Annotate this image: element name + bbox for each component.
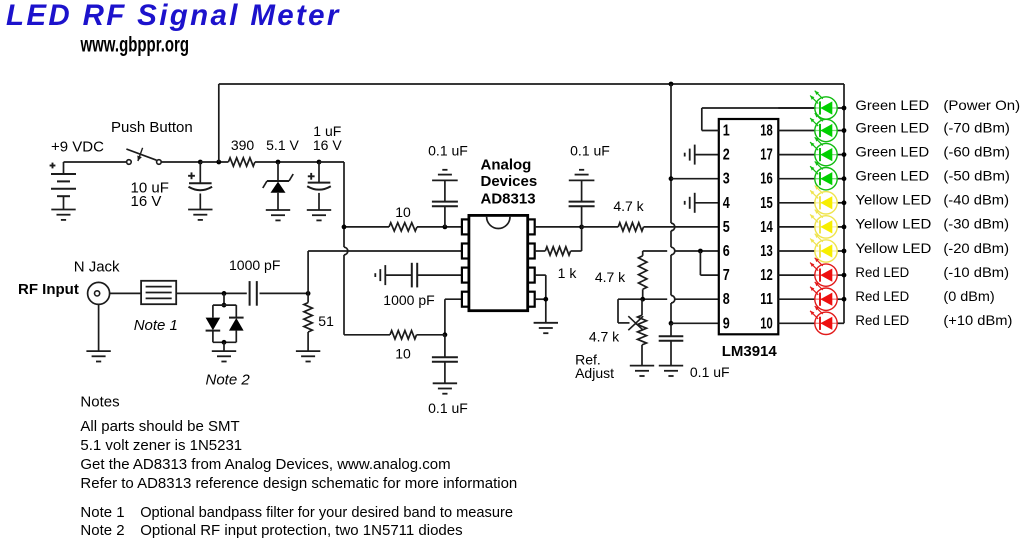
svg-text:(+10 dBm): (+10 dBm) [943, 312, 1012, 328]
svg-text:Optional bandpass filter for y: Optional bandpass filter for your desire… [140, 504, 513, 521]
svg-text:0.1 uF: 0.1 uF [690, 364, 730, 380]
svg-text:LM3914: LM3914 [722, 343, 778, 360]
svg-text:Note 1: Note 1 [134, 317, 178, 334]
svg-text:(-10 dBm): (-10 dBm) [943, 264, 1009, 280]
svg-text:18: 18 [760, 123, 773, 140]
svg-text:390: 390 [231, 137, 255, 153]
svg-text:Note 2: Note 2 [80, 522, 124, 538]
svg-text:Note 2: Note 2 [206, 371, 251, 388]
svg-text:(-60 dBm): (-60 dBm) [943, 143, 1010, 159]
svg-text:Green LED: Green LED [855, 168, 929, 184]
svg-text:Analog: Analog [481, 157, 532, 174]
svg-text:Yellow LED: Yellow LED [855, 216, 931, 232]
svg-text:0.1 uF: 0.1 uF [428, 143, 468, 159]
svg-text:4: 4 [723, 195, 730, 212]
svg-text:17: 17 [760, 147, 773, 164]
svg-text:14: 14 [760, 219, 773, 236]
svg-text:AD8313: AD8313 [481, 191, 536, 208]
svg-text:Optional RF input protection,: Optional RF input protection, two 1N5711… [140, 522, 462, 538]
svg-text:Devices: Devices [481, 173, 538, 190]
svg-text:Red LED: Red LED [855, 264, 909, 280]
svg-text:8: 8 [723, 291, 730, 308]
svg-text:Get the AD8313 from Analog Dev: Get the AD8313 from Analog Devices, www.… [80, 456, 450, 473]
svg-text:+9 VDC: +9 VDC [51, 139, 104, 156]
svg-text:(-20 dBm): (-20 dBm) [943, 240, 1009, 256]
svg-text:Note 1: Note 1 [80, 504, 124, 521]
svg-text:Push Button: Push Button [111, 119, 193, 136]
svg-text:www.gbppr.org: www.gbppr.org [80, 34, 189, 57]
svg-text:0.1 uF: 0.1 uF [428, 400, 468, 416]
svg-text:13: 13 [760, 243, 773, 260]
svg-text:Adjust: Adjust [575, 365, 614, 381]
svg-text:(-70 dBm): (-70 dBm) [943, 119, 1010, 135]
svg-text:LED RF Signal Meter: LED RF Signal Meter [6, 0, 341, 32]
svg-text:Refer to AD8313 reference desi: Refer to AD8313 reference design schemat… [80, 475, 517, 492]
svg-text:1000 pF: 1000 pF [229, 257, 280, 273]
svg-text:Green LED: Green LED [855, 97, 929, 113]
svg-text:RF Input: RF Input [18, 281, 79, 298]
svg-text:All parts should be SMT: All parts should be SMT [80, 418, 239, 435]
svg-text:(Power On): (Power On) [943, 97, 1020, 113]
svg-text:Green LED: Green LED [855, 143, 929, 159]
svg-text:1: 1 [723, 123, 730, 140]
svg-text:4.7 k: 4.7 k [589, 329, 620, 345]
svg-text:16 V: 16 V [313, 137, 342, 153]
svg-text:5.1 V: 5.1 V [266, 137, 299, 153]
svg-text:7: 7 [723, 267, 730, 284]
svg-text:0.1 uF: 0.1 uF [570, 143, 610, 159]
svg-text:Red LED: Red LED [855, 312, 909, 328]
svg-text:5: 5 [723, 219, 730, 236]
svg-text:15: 15 [760, 195, 773, 212]
svg-text:16: 16 [760, 171, 773, 188]
svg-text:10: 10 [760, 315, 773, 332]
svg-text:Notes: Notes [80, 393, 119, 410]
svg-text:Yellow LED: Yellow LED [855, 192, 931, 208]
svg-text:16 V: 16 V [131, 193, 162, 210]
svg-text:(-50 dBm): (-50 dBm) [943, 168, 1010, 184]
svg-text:51: 51 [318, 313, 334, 329]
svg-text:1000 pF: 1000 pF [383, 292, 434, 308]
svg-text:(-40 dBm): (-40 dBm) [943, 192, 1009, 208]
svg-text:N Jack: N Jack [74, 258, 120, 275]
svg-text:1 k: 1 k [558, 265, 578, 281]
svg-text:6: 6 [723, 243, 730, 260]
svg-text:(0 dBm): (0 dBm) [943, 288, 994, 304]
svg-text:4.7 k: 4.7 k [613, 198, 644, 214]
svg-text:Yellow LED: Yellow LED [855, 240, 931, 256]
svg-text:5.1 volt zener is 1N5231: 5.1 volt zener is 1N5231 [80, 437, 242, 454]
svg-text:12: 12 [760, 267, 773, 284]
svg-text:Green LED: Green LED [855, 119, 929, 135]
svg-text:2: 2 [723, 147, 730, 164]
svg-text:11: 11 [760, 291, 773, 308]
svg-text:(-30 dBm): (-30 dBm) [943, 216, 1009, 232]
svg-text:10: 10 [395, 345, 411, 361]
svg-text:3: 3 [723, 171, 730, 188]
svg-text:9: 9 [723, 315, 730, 332]
svg-text:Red LED: Red LED [855, 288, 909, 304]
svg-text:10: 10 [395, 204, 411, 220]
svg-text:4.7 k: 4.7 k [595, 269, 626, 285]
